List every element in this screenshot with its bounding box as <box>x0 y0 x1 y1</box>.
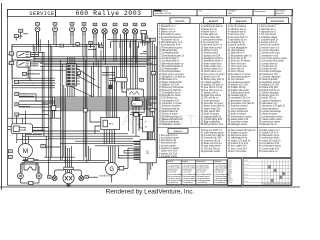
svg-text:33: 33 <box>143 24 145 26</box>
ECU control unit <box>140 140 156 163</box>
regulator rectifier 55 <box>101 118 120 130</box>
legend rows column 3 lower <box>228 130 257 153</box>
connector block pins right <box>76 66 80 84</box>
headlight ground <box>67 184 70 186</box>
svg-text:Englisch: Englisch <box>209 20 219 23</box>
legend header Franzoesisch <box>267 18 289 24</box>
legend header Deutsch <box>170 18 190 24</box>
wire bus lower band <box>12 131 140 146</box>
wire riser bundle x95-135 lamp drops <box>94 41 136 67</box>
connector label 13b <box>15 113 19 116</box>
wire junction dots <box>25 44 150 161</box>
indicator lamp 29 <box>133 23 137 26</box>
label box 37 <box>145 38 150 42</box>
wire mid-left links <box>28 70 66 78</box>
motor ground <box>23 158 27 162</box>
headlamp main twin filament <box>63 173 74 184</box>
wire switch risers extra <box>33 45 35 61</box>
CDI module 46 <box>127 89 144 97</box>
battery 12V <box>140 117 154 132</box>
wire m area links <box>25 134 42 136</box>
main connector block X1 <box>66 64 76 86</box>
wire verticals x91-98 <box>92 60 99 97</box>
bottom abbreviation table <box>166 160 229 186</box>
svg-text:29: 29 <box>134 24 136 26</box>
connector 18 wires <box>19 104 34 107</box>
switch 28 output pins <box>30 61 38 66</box>
wire corner links left <box>12 45 49 115</box>
wire riser bundle x84 <box>84 44 87 162</box>
wire riser bundle x130-137 <box>131 40 138 101</box>
legend rows column 4 lower <box>259 130 282 153</box>
legend table main body <box>158 24 292 158</box>
legend column Deutsch rows 1-39 <box>159 23 186 127</box>
svg-text:17: 17 <box>16 94 18 96</box>
label box 54 <box>60 44 64 47</box>
starter motor M <box>18 144 32 158</box>
connector label 13 <box>14 35 18 38</box>
label box 72 <box>151 72 156 76</box>
wire riser bundle x42 <box>42 52 44 136</box>
wire bus top group A <box>107 39 146 41</box>
pilot lamp 23 <box>70 23 74 26</box>
svg-text:44: 44 <box>141 80 143 82</box>
motor label 30 <box>41 145 45 149</box>
svg-text:37: 37 <box>147 40 149 42</box>
wire riser bundle x60 <box>61 60 66 162</box>
legend header Englisch <box>204 18 224 24</box>
connector label 15 <box>8 150 12 153</box>
wire bus upper-mid band <box>12 57 157 67</box>
wire bus top group B <box>12 45 100 47</box>
svg-text:Deutsch: Deutsch <box>176 20 186 23</box>
wire corner links right <box>90 31 146 134</box>
label box 53 <box>100 45 104 48</box>
connector 13b wires <box>19 114 32 115</box>
footer separator line <box>0 186 300 188</box>
flasher bottom box <box>20 179 39 185</box>
pilot lamp 21 <box>36 23 40 26</box>
svg-text:Rendered by LeadVenture, Inc.: Rendered by LeadVenture, Inc. <box>106 188 195 195</box>
svg-text:40: 40 <box>152 110 154 112</box>
label box 44 <box>140 78 144 81</box>
legend column Italienisch rows 1-39 <box>228 23 255 127</box>
connector label 14 <box>22 72 26 75</box>
generator G KOKUSAN <box>99 163 118 178</box>
motor leads <box>22 134 29 144</box>
connector 17 wires <box>19 93 34 96</box>
headlight position lamp left <box>48 176 51 179</box>
connector 10 wires <box>12 78 55 89</box>
wire verticals x101 <box>96 48 101 97</box>
wire diagonals right of connector <box>70 68 100 97</box>
wire riser bundle lamps to bus <box>36 39 85 57</box>
svg-text:54: 54 <box>61 45 63 47</box>
wire battery top links <box>131 97 147 117</box>
junction box 39 <box>83 108 87 112</box>
flasher relay cylinder 33 <box>142 23 146 26</box>
wire bus bottom band <box>22 157 108 162</box>
svg-text:13: 13 <box>16 114 18 116</box>
handlebar switch 28 <box>9 61 13 65</box>
legend section Spanisch header <box>168 129 188 134</box>
handlebar switch 29 <box>9 52 13 56</box>
title block SERVICE <box>8 9 56 17</box>
info box Fahrzeugnummer <box>154 9 197 15</box>
svg-text:28: 28 <box>11 63 13 65</box>
connector matrix grid <box>243 159 291 186</box>
svg-text:27: 27 <box>114 24 116 26</box>
switch 29 output pins <box>30 52 38 57</box>
svg-text:38: 38 <box>152 40 154 42</box>
wire colour list <box>228 159 242 186</box>
wire battery links <box>140 115 151 140</box>
svg-text:12: 12 <box>86 177 88 179</box>
indicator lamp 25 <box>93 23 97 26</box>
info box Los <box>197 9 227 15</box>
pilot lamp 24 <box>82 23 86 26</box>
info box Rahmennummer <box>253 9 275 15</box>
indicator lamp 27 <box>113 23 117 26</box>
wire G to ECU links <box>118 146 140 168</box>
rear flasher right 35 <box>36 173 42 179</box>
connector label 10 <box>14 80 18 84</box>
wire headlight feeds upper <box>66 146 72 163</box>
svg-text:15: 15 <box>9 151 11 153</box>
wire riser x28 lower-left <box>28 67 30 81</box>
wire bus y118 left <box>8 116 61 124</box>
connector label 23 <box>19 29 23 32</box>
wire riser bundle x106-116 mid <box>106 66 116 118</box>
svg-text:51: 51 <box>77 44 79 46</box>
indicator lamp 28 <box>124 23 128 26</box>
wire ladder top right <box>140 43 150 54</box>
regulator pins down <box>104 130 115 144</box>
wire coil to CDI <box>120 82 122 89</box>
svg-text:24: 24 <box>83 24 85 26</box>
ECU pins <box>134 141 140 160</box>
wire relay outputs <box>32 128 48 131</box>
legend header Italienisch <box>231 18 252 24</box>
wire lower-left extra runs <box>17 136 61 157</box>
headlight position lamp right <box>79 176 84 181</box>
wire right of headlight <box>88 176 98 179</box>
svg-text:10: 10 <box>15 82 17 84</box>
svg-text:18: 18 <box>16 104 18 106</box>
flasher bracket wires <box>20 163 39 174</box>
fuse box small <box>130 113 142 116</box>
wire CDI bottom pins <box>129 97 139 136</box>
generator leads <box>108 146 115 163</box>
svg-text:72: 72 <box>153 73 155 75</box>
legend column Franzoesisch rows 1-39 <box>259 23 288 127</box>
connector label 16 <box>8 155 12 159</box>
legend column Englisch rows 1-39 <box>201 23 226 127</box>
wire coil pin rows <box>102 72 115 76</box>
wire riser x36-40 upper-left <box>36 34 40 57</box>
info box Datum Name <box>275 9 293 15</box>
wire left frame links <box>8 55 12 130</box>
label box 51 <box>76 43 80 46</box>
rear flasher left 34 <box>18 173 24 179</box>
label box 38 <box>151 38 156 42</box>
svg-text:16: 16 <box>9 157 11 159</box>
wire harness right edge <box>147 35 156 180</box>
connector label 17 <box>15 92 19 95</box>
svg-text:28: 28 <box>125 24 127 26</box>
svg-text:14: 14 <box>23 74 25 76</box>
spark plug 45 <box>109 82 113 89</box>
generator side connector <box>118 166 128 170</box>
svg-text:Italienisch: Italienisch <box>236 20 247 23</box>
wire pin stubs upper right <box>90 42 139 48</box>
flasher top connector 30b <box>23 158 39 161</box>
svg-text:29: 29 <box>11 54 13 56</box>
wire riser bundle x50 <box>49 40 52 175</box>
wire lower-left verticals <box>12 60 25 143</box>
wire bottom mid verticals <box>88 146 90 161</box>
label box 52 <box>89 42 93 45</box>
label box 40 <box>150 109 155 113</box>
wire top right extra <box>88 49 147 51</box>
connector 14 wires <box>26 73 40 74</box>
svg-text:30: 30 <box>42 146 44 148</box>
svg-text:26: 26 <box>104 24 106 26</box>
ignition lock relay 31 <box>11 124 32 134</box>
svg-text:G: G <box>109 167 114 173</box>
flasher pins <box>142 40 145 46</box>
svg-text:21: 21 <box>37 24 39 26</box>
indicator lamp 26 <box>103 23 107 26</box>
title block 660 Rallye 2003 <box>56 9 152 17</box>
switch 36 <box>51 97 55 118</box>
pilot lamp 22 <box>53 23 57 26</box>
svg-text:23: 23 <box>71 24 73 26</box>
svg-text:Französisch: Französisch <box>271 20 285 23</box>
ignition coil 43 <box>109 77 127 81</box>
svg-text:M: M <box>23 148 28 155</box>
aux module 47 <box>132 101 143 106</box>
legend rows Spanisch column 1 <box>159 134 180 158</box>
svg-text:52: 52 <box>90 43 92 45</box>
svg-text:660 Rallye 2003: 660 Rallye 2003 <box>75 10 141 17</box>
wire riser bundle x120-126 <box>120 34 126 89</box>
wire bus centre band <box>19 97 157 111</box>
legend rows column 2 lower <box>201 129 225 153</box>
drawing border frame <box>8 9 293 185</box>
left page edge line <box>1 3 3 190</box>
svg-text:22: 22 <box>54 24 56 26</box>
connector block wires bottom <box>67 86 69 97</box>
headlight harness arcs <box>55 163 82 176</box>
connector block wires top <box>67 57 69 65</box>
svg-text:SERVICE: SERVICE <box>29 11 54 17</box>
svg-text:11: 11 <box>48 177 50 179</box>
connector label 18 <box>15 103 19 106</box>
generator ground <box>111 175 113 183</box>
connector pin pair 13 <box>16 36 22 41</box>
svg-text:25: 25 <box>94 24 96 26</box>
svg-text:53: 53 <box>100 46 102 48</box>
info box Schaltplan <box>227 9 253 15</box>
connector pin pair 23 <box>20 32 28 38</box>
